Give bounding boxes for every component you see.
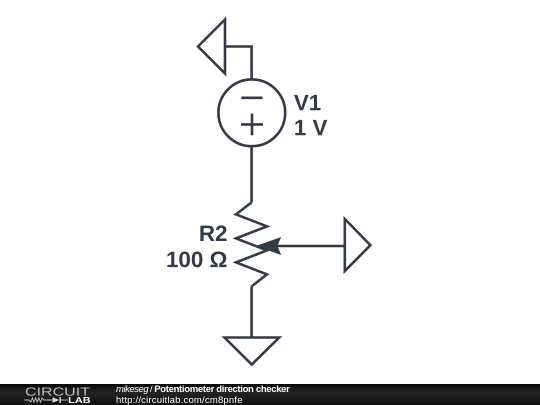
svg-text:R2: R2: [199, 221, 228, 246]
svg-text:V1: V1: [294, 90, 321, 115]
svg-text:100 Ω: 100 Ω: [166, 247, 228, 272]
svg-text:LAB: LAB: [68, 395, 90, 405]
svg-text:1 V: 1 V: [294, 115, 328, 140]
